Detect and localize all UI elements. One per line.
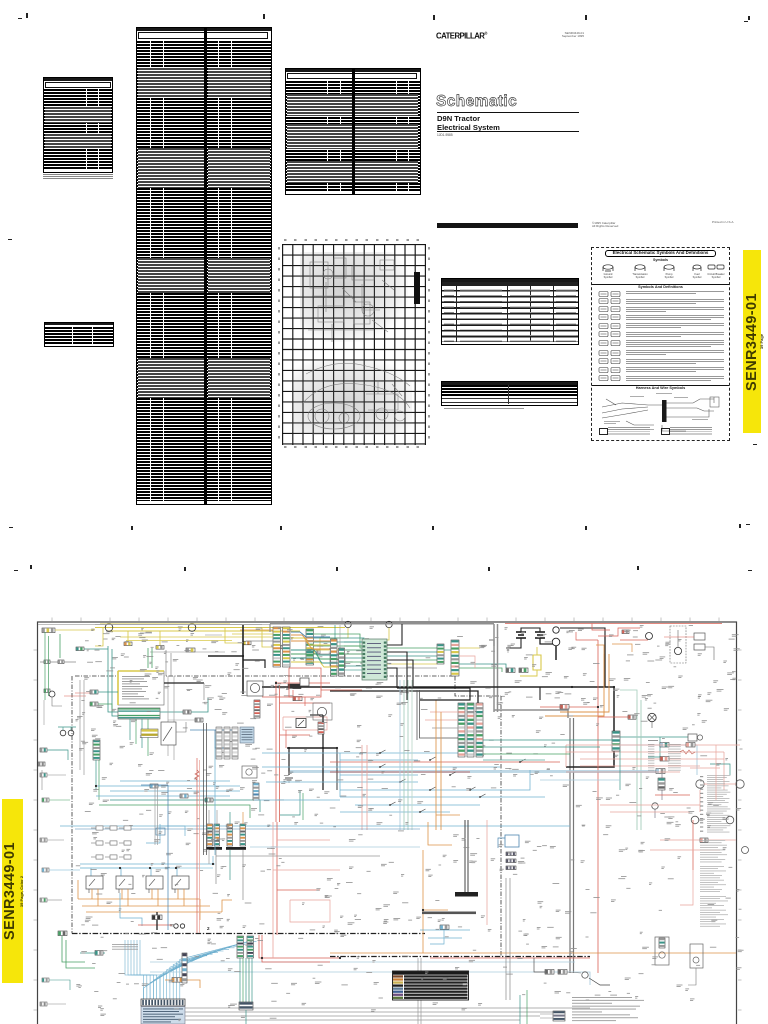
relay orange 1b <box>97 889 99 906</box>
red stub left <box>64 695 86 697</box>
cyan rung left ext 2 <box>262 766 340 768</box>
stack bar SB <box>226 847 246 850</box>
orange feed top <box>596 645 604 654</box>
red pair x262 <box>262 935 330 962</box>
dark pair x417 <box>416 690 418 740</box>
lighter group bands <box>45 107 111 123</box>
alarm connector CN3 <box>243 641 251 645</box>
cyan rung 5 <box>340 781 418 783</box>
red pair x259 <box>259 935 340 958</box>
orange right hook <box>222 900 232 912</box>
teal right hook <box>710 764 730 775</box>
harness gray long pair a <box>569 718 571 973</box>
relay feed blue 3 <box>80 868 151 876</box>
definition icon solenoid symbol <box>598 322 624 330</box>
main harness gray v1 <box>493 624 495 712</box>
gray vertical x340 <box>339 625 341 655</box>
registration mark top-right <box>748 16 750 20</box>
battery B1 plates <box>516 632 526 638</box>
lamp drop 1 <box>62 727 64 730</box>
definition text resistor definition <box>626 366 724 369</box>
right list extension B <box>700 896 728 927</box>
regulator pins <box>318 722 324 734</box>
relay box K2 <box>116 876 133 889</box>
definition text solenoid symbol <box>626 322 724 325</box>
connector BC1 <box>545 970 554 975</box>
dash-dot boundary left vertical <box>71 676 73 934</box>
pale bundle v1 <box>403 680 405 830</box>
connector RH1 <box>686 743 695 748</box>
salmon box bottom <box>290 900 330 922</box>
monitor panel text <box>122 676 150 699</box>
ribbon yellow 2 <box>291 662 338 667</box>
relay orange 2b <box>127 889 129 906</box>
relay box RB1 <box>330 655 343 666</box>
blue branch up <box>146 824 160 843</box>
table F footnote <box>444 408 524 409</box>
cyan rung l4 <box>120 780 230 782</box>
red top link <box>276 682 330 684</box>
fuel sender circle <box>652 803 658 809</box>
transmission controller module <box>362 639 387 680</box>
red stub bottom <box>138 924 172 926</box>
orange hook top <box>436 700 446 710</box>
pale green feed <box>620 690 637 700</box>
red excitation box <box>289 668 321 697</box>
orange hook bottom <box>165 980 200 988</box>
black wire top center <box>330 655 345 668</box>
black vertical x605 <box>604 636 606 687</box>
salmon link low <box>680 870 693 905</box>
mid conn B <box>195 718 203 722</box>
wire list left col <box>648 744 654 771</box>
sender RH box <box>655 937 669 965</box>
gray pair x157 <box>157 785 159 845</box>
cyan extend 3 <box>418 770 530 790</box>
left edge connector e1 <box>40 773 47 777</box>
left edge wire e4 <box>49 869 80 871</box>
stack down g2 <box>215 850 217 884</box>
module black out 4 <box>387 668 397 688</box>
schematic tiny label texture <box>76 625 744 1021</box>
relay circle mid <box>246 769 252 775</box>
circuit breaker CB1 <box>560 705 569 710</box>
central connector block CC2 <box>467 703 474 757</box>
alternator pin stack <box>254 700 260 718</box>
yellow second pair b <box>126 640 232 642</box>
J2 connector <box>247 936 254 958</box>
instrument pin column 2 <box>224 727 230 759</box>
black vertical x323 <box>322 715 324 790</box>
blue relay box <box>505 835 519 847</box>
sensor wire <box>52 697 62 706</box>
cyan small net a <box>420 929 470 931</box>
black angled <box>589 978 610 985</box>
relay block R3 <box>694 644 705 650</box>
orange vertical A <box>545 654 604 716</box>
connector FL <box>628 715 636 719</box>
dark connector DK1 <box>152 915 162 920</box>
teal to sender <box>620 736 688 738</box>
red link 3 <box>280 702 331 704</box>
dark pair x206 <box>206 723 208 855</box>
salmon extra rung rB <box>566 771 680 773</box>
teal bundle right 1 <box>483 739 620 741</box>
cyan small hook <box>430 930 444 944</box>
pale blue right link <box>610 744 697 746</box>
small conn bottom mid <box>440 925 449 929</box>
cyan rung 6 <box>340 789 418 791</box>
starter cable down <box>555 646 557 660</box>
relay bus drop right <box>212 856 214 864</box>
relay orange 3a <box>151 889 153 899</box>
column separators dark <box>456 282 457 342</box>
battery B2 plates <box>535 632 545 638</box>
stack down g1 <box>208 850 210 864</box>
connector CP5 <box>40 748 47 752</box>
gray riser E <box>165 650 167 676</box>
teal wire monitor right <box>160 698 208 712</box>
orange step down <box>199 899 201 920</box>
ECM connector below <box>253 783 259 800</box>
relay pin K4 <box>174 889 176 893</box>
teal vertical x335 <box>334 625 336 655</box>
definition text relay symbol <box>626 314 724 317</box>
grid column numbers top <box>284 239 424 241</box>
stack SB1 <box>227 824 233 846</box>
legend title bar <box>393 972 468 975</box>
left chain conn 2 <box>90 702 98 706</box>
harness connector P1 left <box>273 627 281 667</box>
cyan fan wire 6 <box>160 951 224 999</box>
starter motor <box>552 638 560 646</box>
blue mid wire <box>190 729 235 731</box>
gray out 4 <box>185 1019 520 1021</box>
key start switch <box>646 633 653 640</box>
salmon rung r1 <box>566 744 740 746</box>
connector pale blue <box>660 743 669 748</box>
red right vertical x693 <box>692 820 694 870</box>
white column separators <box>149 41 152 501</box>
cyan rung l3 <box>96 795 230 797</box>
yellow drop to connector 2 <box>159 631 161 646</box>
module left wire 4 <box>344 653 362 655</box>
faint drawing content upper <box>300 252 408 342</box>
left edge wire e6 <box>49 980 70 990</box>
dark pair x419 turn <box>420 690 461 738</box>
cyan extra rung a <box>355 804 480 806</box>
pale blue lower right <box>540 779 620 781</box>
relay feed blue 1 <box>80 868 91 876</box>
salmon stub r6 <box>690 767 720 769</box>
battery cable to P1 <box>243 660 265 668</box>
relay orange 4a <box>177 889 179 899</box>
stack bar SA <box>206 847 222 850</box>
alarm A1 <box>345 621 351 627</box>
yellow riser left <box>95 628 103 647</box>
wire junction dots <box>95 655 615 959</box>
power cable right turn <box>566 687 614 767</box>
monitor out 2 <box>135 719 137 744</box>
green riser C <box>147 648 149 668</box>
cyan rung 1 <box>340 752 418 754</box>
orange bus 3 <box>86 911 222 913</box>
connector CP6 <box>38 762 45 766</box>
legend color rows <box>393 975 468 999</box>
cyan fan wire 2 <box>147 957 202 999</box>
monitor panel box <box>118 671 164 705</box>
left edge connector e6 <box>42 978 49 982</box>
connector midtop <box>186 648 195 652</box>
red center link <box>280 734 311 736</box>
salmon vertical right x716 <box>715 745 717 800</box>
salmon riser SR2 <box>276 822 278 935</box>
salmon rung r2 <box>566 751 724 753</box>
salmon right low rung <box>660 839 736 841</box>
main harness gray top <box>489 640 494 646</box>
inline conn alarm2 <box>362 650 370 654</box>
gauge needle <box>163 727 172 741</box>
ECM text lines <box>242 729 253 740</box>
ribbon orange 1 <box>291 635 330 641</box>
left bottom labels <box>112 944 138 950</box>
relay pin K2 <box>118 889 120 893</box>
bottom notes text <box>572 997 644 1021</box>
orange bus 1 <box>78 898 200 900</box>
orange bus 2 <box>82 905 210 907</box>
registration mark top x585 <box>585 15 587 20</box>
green out P2 d <box>314 646 438 660</box>
horn H1 <box>105 624 113 632</box>
central connector block CC3 <box>476 703 483 757</box>
right list extension A <box>700 866 726 892</box>
wire relay frame <box>705 647 714 660</box>
module left wire 7 <box>344 665 362 667</box>
definition text switch normally closed <box>626 306 724 309</box>
temp sender box <box>688 734 697 741</box>
left teal branch <box>98 691 118 693</box>
fuse block F1 <box>42 628 55 633</box>
orange branch low <box>436 814 460 816</box>
stack down t <box>229 850 231 880</box>
inline conn lower2 <box>180 794 188 798</box>
gauge link <box>704 783 736 785</box>
relay pin K3 <box>148 889 150 893</box>
cyan fan wire 4 <box>153 954 212 999</box>
yellow into P1 b <box>232 636 273 638</box>
backup alarm wire <box>320 628 348 650</box>
definition text switch normally open <box>626 298 724 301</box>
red drop keyswitch <box>592 624 610 631</box>
sender RH circle2 <box>693 957 699 963</box>
alternator circle <box>250 683 259 692</box>
gray pair v x421 <box>420 958 422 1024</box>
teal riser A <box>108 646 118 712</box>
grid row letters right <box>428 247 430 443</box>
salmon rung b1 <box>277 839 330 841</box>
definition text fuse symbol <box>626 331 724 334</box>
ribbon yellow 1 <box>291 638 330 645</box>
inline connector IC2 <box>519 668 528 673</box>
blue vertical x168 <box>167 785 169 930</box>
definition icon circuit breaker definition <box>598 349 624 357</box>
left gray pair v b <box>83 680 85 775</box>
green out P2 a <box>314 634 438 648</box>
black drop horn bottom <box>534 958 545 972</box>
main harness gray turn <box>494 710 568 718</box>
salmon rung r3 <box>580 758 724 760</box>
cyan vertical x215 <box>214 735 216 855</box>
teal bundle down 5 <box>251 958 253 1002</box>
black bar right side <box>414 272 420 304</box>
cyan riser 3 <box>131 940 150 999</box>
cyan fan wire 8 <box>167 948 235 999</box>
alarm connector CN4 <box>275 645 283 649</box>
teal bundle right 4 <box>483 759 545 761</box>
red to flood light <box>598 716 628 718</box>
machine connector pins <box>142 1000 183 1005</box>
left edge connector e5 <box>40 898 47 902</box>
teal bundle down 2 <box>242 958 244 1002</box>
yellow second pair <box>120 636 232 638</box>
yellow jog <box>225 628 246 644</box>
grid schematic (foldout location drawing) <box>282 244 426 445</box>
title rule 2 <box>437 131 579 132</box>
grid reference ticks side margins <box>34 650 742 1010</box>
gray stub top a <box>140 632 152 634</box>
power receptacle b <box>180 924 184 928</box>
yellow out P2 e <box>314 650 438 664</box>
teal run lower <box>110 800 260 812</box>
dark vertical x468 <box>467 820 469 892</box>
cyan fan wire 10 <box>173 945 245 999</box>
gray wire y652 b <box>195 651 225 653</box>
definition text connector symbol <box>626 339 724 342</box>
cyan rung left ext 3 <box>266 781 340 783</box>
diode chain row 1 <box>91 826 131 830</box>
stack SA1 <box>207 824 213 846</box>
teal out P2 b <box>314 638 438 652</box>
gray mid branch <box>168 719 200 721</box>
symbols row placeholder <box>596 262 726 282</box>
main harness gray v2 <box>497 624 499 712</box>
monitor panel yellow border <box>118 671 164 705</box>
relay feed blue 2 <box>80 868 121 876</box>
gauge box <box>161 722 176 745</box>
gray left vertical <box>43 700 45 725</box>
teal bundle down 1 <box>239 958 241 1002</box>
gray harness top thick <box>270 623 494 625</box>
divider <box>592 284 729 285</box>
relay box mid <box>242 766 257 778</box>
definition text circuit breaker definition <box>626 349 724 352</box>
green left vertical 2 <box>48 636 50 696</box>
lamp L2 <box>68 730 74 736</box>
definition icon connector symbol <box>598 339 624 347</box>
yellow tab left <box>2 799 23 983</box>
cyan fan wire 11 <box>177 943 252 999</box>
relay in salmon box <box>296 719 306 728</box>
left edge wire e5 <box>47 899 62 901</box>
red long lower <box>430 957 590 959</box>
left edge wire e1 <box>47 774 66 776</box>
wire color legend frame <box>393 971 469 1000</box>
gray into P1 <box>246 640 273 642</box>
black separator bar <box>437 223 578 229</box>
cyan link mid <box>254 799 340 801</box>
machine label block <box>141 1007 185 1024</box>
salmon lower riser <box>699 790 701 812</box>
switch contact symbols <box>379 750 525 813</box>
definition icon lamp definition <box>598 357 624 365</box>
red rung A <box>330 761 560 763</box>
red jog b <box>598 628 640 636</box>
sender RH box2 <box>690 944 703 968</box>
cyan riser 4 <box>134 940 153 999</box>
module black out 1 <box>387 624 402 645</box>
salmon rung b3 <box>277 889 320 891</box>
cyan riser 6 <box>140 940 160 999</box>
bottom center connector <box>553 1011 565 1021</box>
dash-dot boundary bottom main <box>72 933 425 935</box>
ground symbol battery <box>506 648 510 652</box>
black horiz y715 <box>310 714 323 716</box>
red riser 1 <box>275 681 277 822</box>
faint sketch strokes <box>282 244 426 445</box>
D9N Tractor <box>437 114 557 123</box>
sender connector SC1 <box>612 731 620 751</box>
thick gray bar <box>422 912 476 915</box>
teal bundle down 3 <box>245 958 247 1002</box>
red pair x199.5 <box>199 760 201 933</box>
left green branch <box>98 704 112 712</box>
green wire left edge drop <box>59 634 61 658</box>
relay orange 3b <box>157 889 159 906</box>
into bottom conn 1 <box>540 1013 553 1015</box>
module left wire 2 <box>344 645 362 647</box>
definition icon switch normally closed <box>598 305 624 313</box>
into bottom conn 2 <box>540 1017 553 1019</box>
harness connector P2 <box>306 629 314 665</box>
dash-dot boundary top <box>75 675 455 677</box>
dark vertical x465 <box>464 820 466 892</box>
stack connector <box>658 778 665 790</box>
table E (hydraulic info table) <box>441 278 579 346</box>
gray out 1 <box>185 1007 590 1009</box>
horn connector CN2 <box>156 646 164 650</box>
yellow horn bus upper <box>95 627 345 629</box>
gray harness drop <box>269 624 271 632</box>
sender stack wires <box>661 774 663 800</box>
diode block D1 <box>288 684 301 689</box>
black bus drop <box>288 748 290 775</box>
stack riser t <box>229 812 231 824</box>
yellow into P1 a <box>232 633 273 635</box>
ribbon green 1 <box>291 654 338 659</box>
gray run right of stacks <box>216 855 380 857</box>
wire to alarm bottom <box>567 972 581 973</box>
gray jumper wires <box>40 661 76 663</box>
relay orange 1a <box>91 889 93 899</box>
backup alarm wire 2 <box>370 628 389 650</box>
teal out P2 c <box>314 642 438 656</box>
black segment left monitor <box>164 682 204 684</box>
green corner 1 <box>62 936 85 962</box>
gray out 2 <box>185 1011 560 1013</box>
fuel sender wire <box>654 809 656 818</box>
definition icon fuse symbol <box>598 330 624 338</box>
cyan fan wire 3 <box>150 956 207 999</box>
